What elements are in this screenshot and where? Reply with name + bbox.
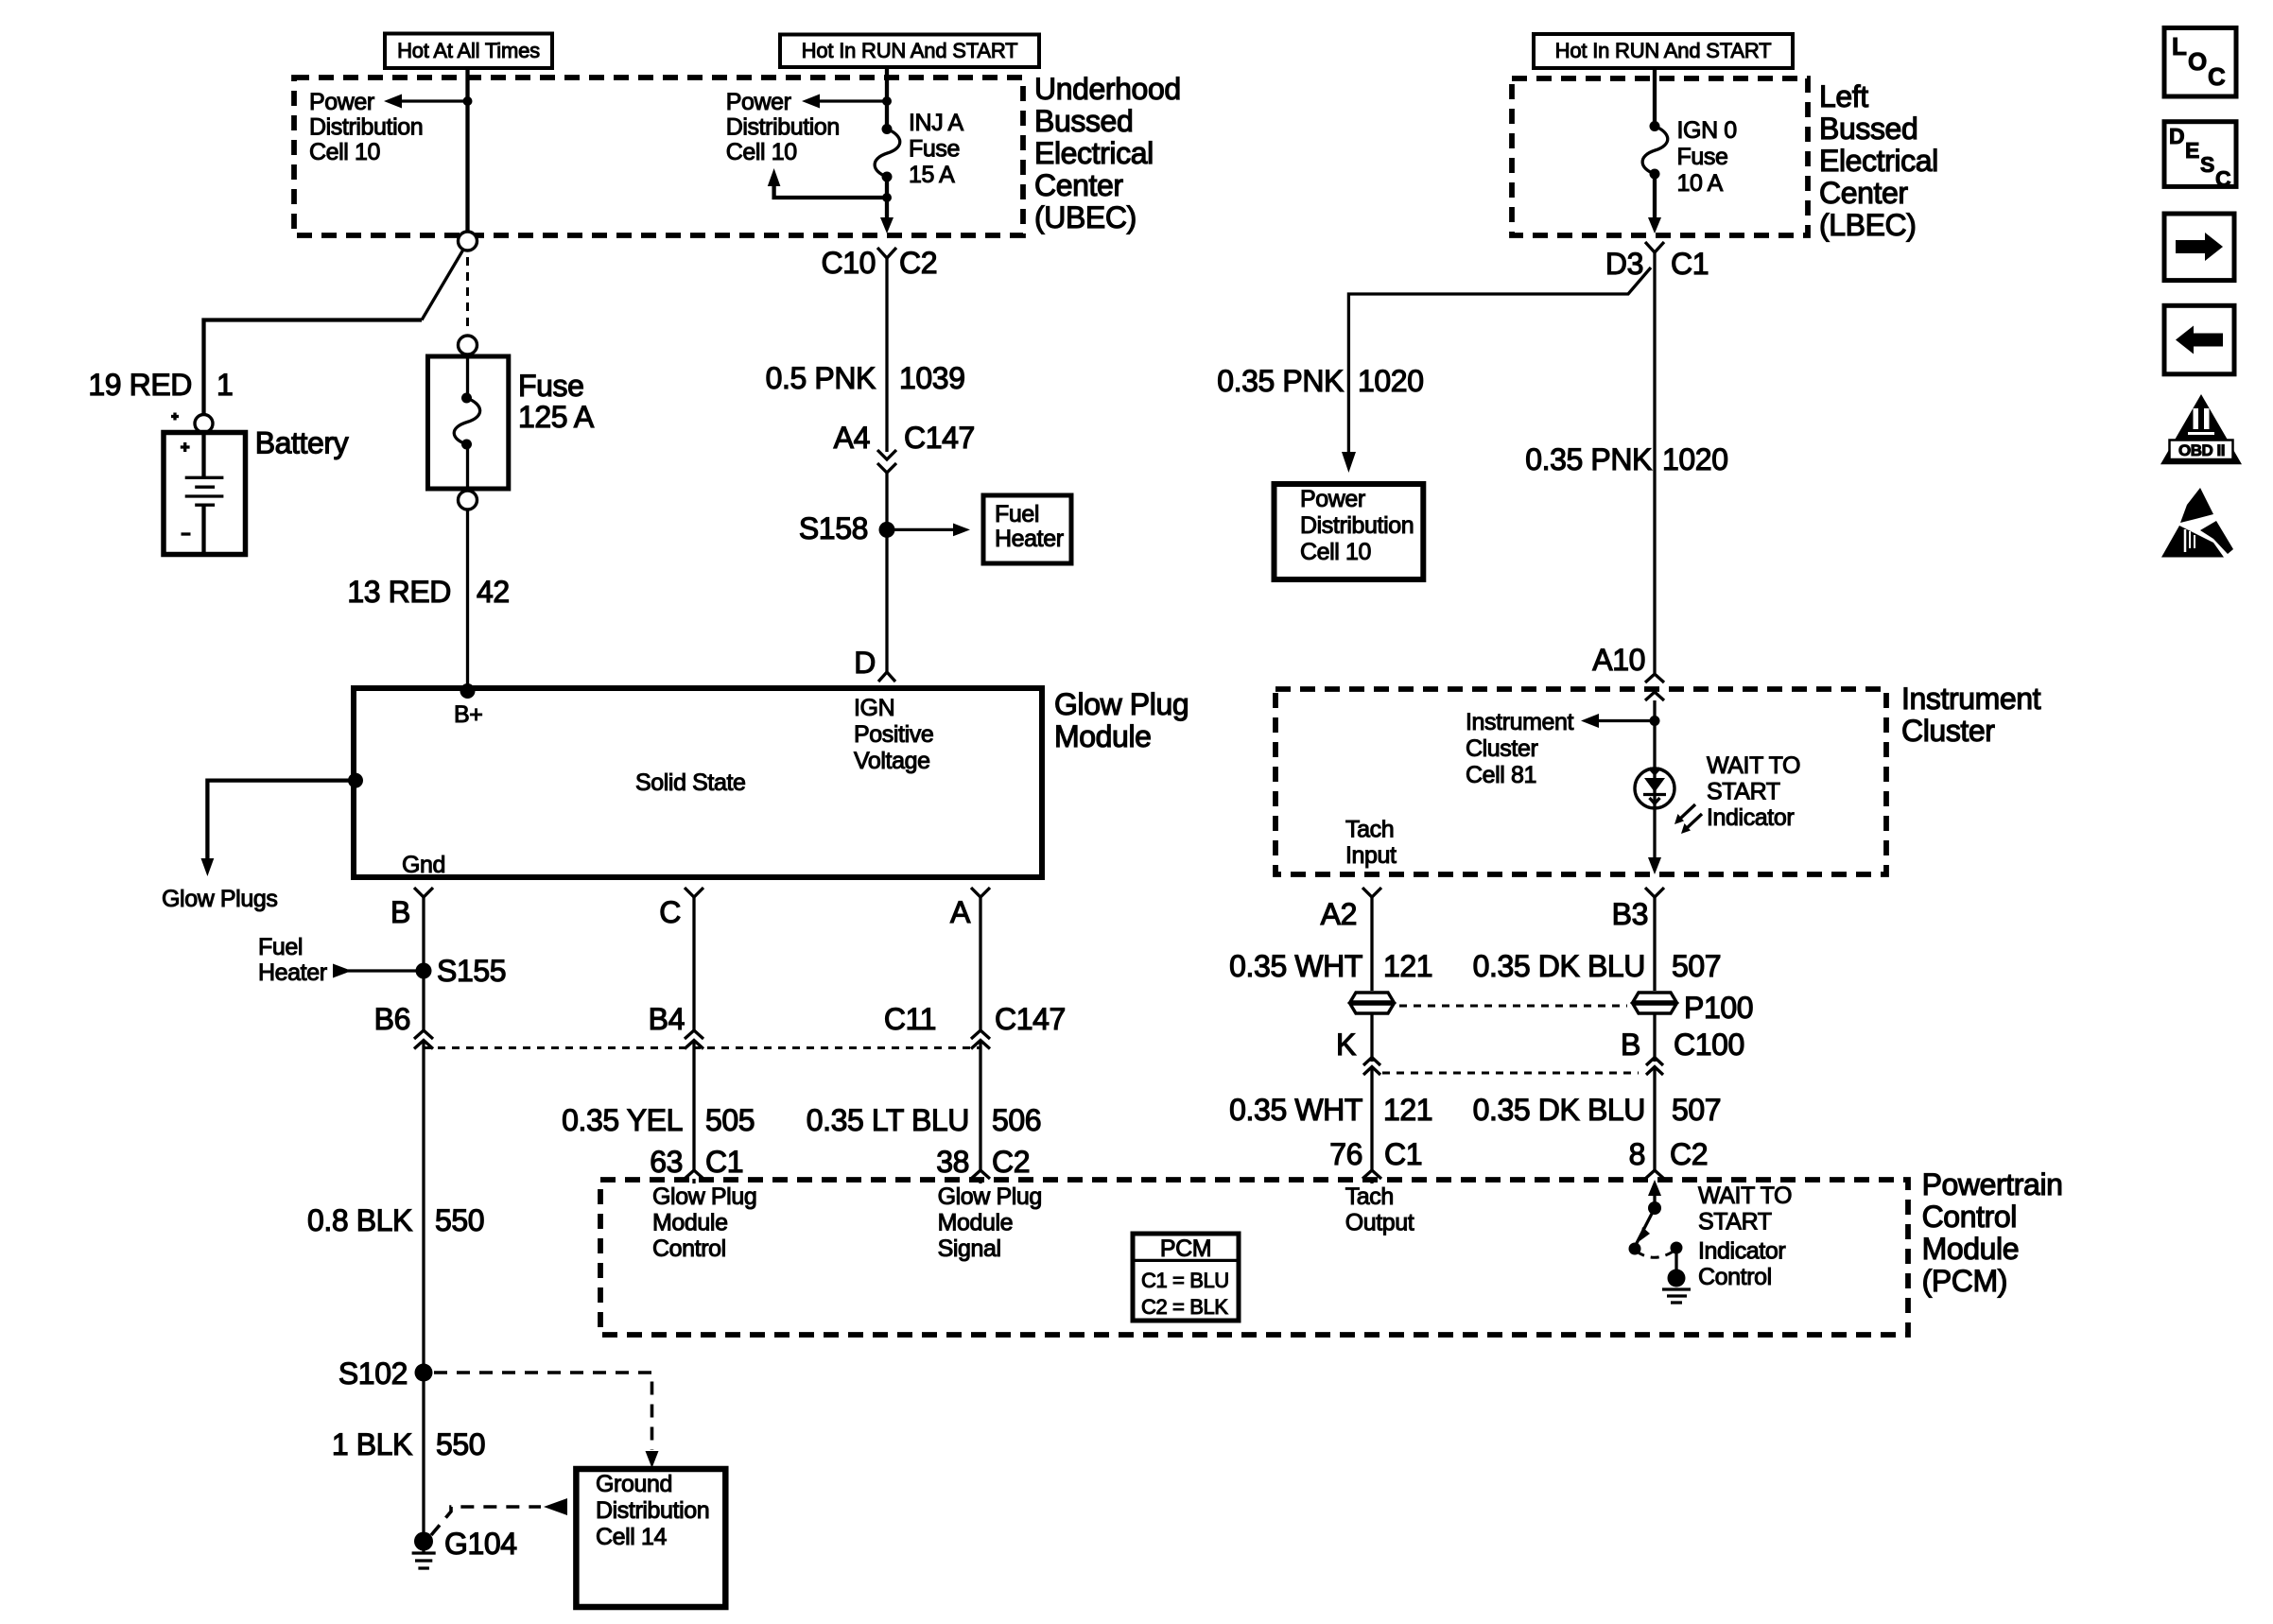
svg-text:A2: A2 xyxy=(1321,897,1357,931)
connector: A10 chevrons into Instrument Cluster xyxy=(1645,674,1664,769)
svg-text:C2: C2 xyxy=(1670,1137,1708,1171)
svg-text:Distribution: Distribution xyxy=(726,114,840,141)
svg-text:Hot At All Times: Hot At All Times xyxy=(397,39,540,62)
svg-text:Cell 10: Cell 10 xyxy=(1300,539,1371,565)
wire: D3 branch diagonal to 0.35 PNK 1020 xyxy=(1348,268,1651,452)
svg-text:1020: 1020 xyxy=(1358,364,1424,398)
svg-text:C1 = BLU: C1 = BLU xyxy=(1141,1269,1229,1292)
wire: dashed connector C147 span xyxy=(424,1046,980,1049)
connector: B6 double chevron (C147) xyxy=(414,1030,433,1369)
icon: forward arrow box xyxy=(2164,214,2234,281)
switch blade diagonal xyxy=(422,250,463,320)
node: switch pivot dot xyxy=(1648,1201,1661,1215)
node: junction dot at cluster feed xyxy=(1650,716,1660,726)
connector: pin 8/C2 chevron into PCM xyxy=(1645,1170,1664,1179)
wire: battery positive feed horizontal xyxy=(204,320,423,416)
svg-text:Cell 14: Cell 14 xyxy=(596,1524,668,1550)
text: wire label 0.35 YEL 505 xyxy=(562,1103,755,1137)
svg-text:C2: C2 xyxy=(992,1145,1030,1179)
component: Fuel Heater box xyxy=(983,495,1071,563)
svg-text:Control: Control xyxy=(652,1235,726,1262)
svg-text:19 RED: 19 RED xyxy=(88,368,192,402)
wire: B to B6 xyxy=(422,971,425,1030)
svg-text:550: 550 xyxy=(435,1203,484,1237)
svg-text:0.35 LT BLU: 0.35 LT BLU xyxy=(807,1103,969,1137)
svg-text:Center: Center xyxy=(1819,176,1908,210)
svg-text:0.35 YEL: 0.35 YEL xyxy=(562,1103,683,1137)
svg-text:Signal: Signal xyxy=(938,1235,1001,1262)
svg-text:10 A: 10 A xyxy=(1677,170,1724,197)
text: Power Distribution Cell 10 (UBEC left) xyxy=(309,89,423,165)
svg-text:507: 507 xyxy=(1672,1093,1721,1127)
wire: dashed reference S102 to Ground Distribution xyxy=(434,1373,659,1468)
svg-text:B3: B3 xyxy=(1612,897,1648,931)
connector: pin 63/C1 chevron into PCM xyxy=(685,1170,703,1183)
svg-text:C2 = BLK: C2 = BLK xyxy=(1141,1295,1228,1319)
text: Glow Plug Module Signal xyxy=(938,1183,1042,1262)
open circle: fuse 125A bottom terminal xyxy=(459,491,477,510)
svg-text:WAIT TO: WAIT TO xyxy=(1698,1183,1792,1209)
svg-text:OBD II: OBD II xyxy=(2178,441,2225,459)
wire: arrow to Power Distribution Cell 10 (UBEC right) xyxy=(802,95,887,109)
svg-text:S: S xyxy=(2200,152,2214,177)
wire: arrow into Power Distribution box xyxy=(1342,452,1356,473)
svg-text:1039: 1039 xyxy=(899,361,965,395)
svg-text:Hot In RUN And START: Hot In RUN And START xyxy=(1555,39,1772,62)
icon: OBD II triangle xyxy=(2160,394,2242,464)
svg-text:INJ A: INJ A xyxy=(909,110,963,136)
switch: open contact circle at UBEC exit xyxy=(459,232,477,251)
svg-text:Power: Power xyxy=(1300,486,1365,512)
fuse element 125A xyxy=(454,356,479,489)
svg-text:0.35 WHT: 0.35 WHT xyxy=(1229,949,1362,983)
switch dashed travel line xyxy=(466,257,469,333)
connector: A4/C147 inline chevrons xyxy=(877,450,896,672)
svg-text:8: 8 xyxy=(1629,1137,1645,1171)
text: Glow Plug Module (side label) xyxy=(1054,687,1189,753)
pin C: Y terminal below module xyxy=(685,888,703,1030)
text: 63 | C1 xyxy=(650,1145,743,1179)
svg-text:A4: A4 xyxy=(834,421,870,455)
wire: contact to ground xyxy=(1674,1248,1677,1270)
connector: C10/C2 Y terminal xyxy=(877,248,896,452)
svg-text:C147: C147 xyxy=(904,421,975,455)
wire: arrow to Power Distribution Cell 10 (left) xyxy=(384,95,468,109)
text: 8 | C2 xyxy=(1629,1137,1709,1171)
ground G104 xyxy=(412,1532,436,1569)
svg-text:Ground: Ground xyxy=(596,1471,672,1497)
text: Fuse 125 A xyxy=(518,369,595,434)
svg-text:Left: Left xyxy=(1819,79,1868,113)
ground: indicator control ground xyxy=(1662,1270,1691,1304)
node: junction dot below fuse xyxy=(882,193,892,202)
text: Tach Output xyxy=(1345,1183,1414,1236)
svg-text:Instrument: Instrument xyxy=(1901,682,2041,716)
wire: below INJ A fuse xyxy=(885,177,889,217)
svg-text:Indicator: Indicator xyxy=(1698,1238,1785,1265)
svg-text:Bussed: Bussed xyxy=(1034,104,1133,138)
svg-text:S102: S102 xyxy=(338,1356,408,1391)
icon: DESC box xyxy=(2164,122,2236,191)
node: splice S102 xyxy=(415,1364,433,1382)
svg-text:Input: Input xyxy=(1345,842,1397,869)
node: switch blade end dot xyxy=(1629,1243,1641,1255)
text: 38 | C2 xyxy=(936,1145,1030,1179)
switch blade with arrowhead xyxy=(1635,1208,1655,1247)
svg-text:Electrical: Electrical xyxy=(1034,136,1154,170)
wire: LED to cluster bottom with arrow xyxy=(1648,808,1661,874)
wire: dashed P100 span xyxy=(1399,1005,1627,1008)
connector: pin 76/C1 chevron into PCM xyxy=(1362,1170,1381,1183)
text: Glow Plug Module Control xyxy=(652,1183,756,1262)
svg-text:Power: Power xyxy=(309,89,374,115)
svg-text:505: 505 xyxy=(705,1103,755,1137)
pin A: Y terminal below module xyxy=(971,888,990,1030)
svg-text:(PCM): (PCM) xyxy=(1922,1264,2007,1298)
svg-text:IGN: IGN xyxy=(854,695,894,721)
svg-text:Fuse: Fuse xyxy=(518,369,584,403)
svg-text:Indicator: Indicator xyxy=(1707,804,1794,831)
svg-text:Distribution: Distribution xyxy=(309,114,423,141)
svg-text:C: C xyxy=(2208,62,2226,91)
text: wire label 1 BLK 550 xyxy=(332,1427,485,1461)
svg-text:Glow Plug: Glow Plug xyxy=(938,1183,1042,1210)
svg-text:Positive: Positive xyxy=(854,721,933,748)
svg-text:0.35 PNK: 0.35 PNK xyxy=(1525,442,1652,476)
svg-text:Solid State: Solid State xyxy=(635,769,746,796)
svg-text:Tach: Tach xyxy=(1345,817,1394,843)
svg-text:Fuse: Fuse xyxy=(1677,144,1728,170)
text: INJ A Fuse 15 A xyxy=(909,110,963,188)
wire: arrow down at UBEC exit (C2) xyxy=(880,217,894,233)
text: Instrument Cluster (side label) xyxy=(1901,682,2041,748)
svg-text:Voltage: Voltage xyxy=(854,748,930,774)
text: WAIT TO START Indicator (cluster) xyxy=(1707,752,1800,831)
open circle: fuse 125A top terminal xyxy=(459,336,477,354)
node: junction dot battery feed in UBEC xyxy=(463,96,473,106)
module LBEC dashed box xyxy=(1512,78,1808,235)
node: splice S158 xyxy=(879,522,895,538)
wire: branch with up arrow to Power Distribution xyxy=(768,168,887,198)
text: IGN 0 Fuse 10 A xyxy=(1677,117,1737,197)
svg-text:Distribution: Distribution xyxy=(1300,512,1414,539)
svg-text:Battery: Battery xyxy=(255,426,349,460)
svg-text:(LBEC): (LBEC) xyxy=(1819,208,1917,242)
svg-text:13 RED: 13 RED xyxy=(347,575,451,609)
svg-text:1020: 1020 xyxy=(1662,442,1728,476)
svg-text:START: START xyxy=(1707,779,1780,805)
wire: 1 BLK 550 down to G104 xyxy=(422,1373,425,1537)
svg-text:Powertrain: Powertrain xyxy=(1922,1167,2063,1201)
svg-text:0.35 WHT: 0.35 WHT xyxy=(1229,1093,1362,1127)
connector: C11/C147 double chevron xyxy=(971,1030,990,1170)
svg-text:506: 506 xyxy=(992,1103,1041,1137)
pin D: Y terminal into Glow Plug Module xyxy=(878,672,895,682)
svg-text:Output: Output xyxy=(1345,1210,1414,1236)
text: Tach Input xyxy=(1345,817,1397,870)
svg-text:38: 38 xyxy=(936,1145,969,1179)
svg-text:B: B xyxy=(390,895,410,929)
component: Ground Distribution Cell 14 box xyxy=(576,1469,725,1607)
svg-text:121: 121 xyxy=(1383,1093,1432,1127)
component: PCM legend box xyxy=(1133,1234,1239,1321)
svg-text:Control: Control xyxy=(1698,1264,1772,1290)
svg-text:Electrical: Electrical xyxy=(1819,144,1938,178)
svg-text:PCM: PCM xyxy=(1160,1235,1211,1262)
connector: pin 38/C2 chevron into PCM xyxy=(971,1170,990,1183)
svg-text:125 A: 125 A xyxy=(518,400,595,434)
svg-text:S155: S155 xyxy=(437,954,506,988)
text: Underhood Bussed Electrical Center (UBEC) xyxy=(1034,72,1181,234)
svg-text:Bussed: Bussed xyxy=(1819,112,1917,146)
svg-text:Glow Plug: Glow Plug xyxy=(652,1183,756,1210)
svg-text:C1: C1 xyxy=(705,1145,743,1179)
text: Powertrain Control Module (PCM) side label xyxy=(1922,1167,2063,1298)
svg-text:Hot In RUN And START: Hot In RUN And START xyxy=(802,39,1018,62)
node: junction dot INJ A feed xyxy=(882,96,892,106)
switch: WAIT TO START indicator control arrow up xyxy=(1648,1180,1661,1208)
wire: arrow to Instrument Cluster Cell 81 xyxy=(1581,714,1655,728)
connector: C100 double chevron (right) xyxy=(1646,1058,1663,1171)
text: Left Bussed Electrical Center (LBEC) xyxy=(1819,79,1938,242)
text: wire label 0.35 LT BLU 506 xyxy=(807,1103,1042,1137)
svg-text:Module: Module xyxy=(1054,719,1152,753)
svg-text:B: B xyxy=(1621,1028,1640,1062)
svg-text:Glow Plug: Glow Plug xyxy=(1054,687,1189,721)
svg-text:K: K xyxy=(1336,1028,1356,1062)
node: B+ junction dot xyxy=(460,683,476,699)
svg-text:C100: C100 xyxy=(1674,1028,1744,1062)
svg-text:Control: Control xyxy=(1922,1200,2017,1234)
svg-text:L: L xyxy=(2172,32,2187,60)
svg-text:Heater: Heater xyxy=(995,526,1064,552)
svg-text:Distribution: Distribution xyxy=(596,1497,709,1524)
svg-text:15 A: 15 A xyxy=(909,162,955,188)
svg-text:0.8 BLK: 0.8 BLK xyxy=(307,1203,412,1237)
text: D3 | C1 xyxy=(1605,247,1709,281)
svg-text:P100: P100 xyxy=(1684,991,1753,1025)
svg-text:S158: S158 xyxy=(799,511,868,545)
pin B: Y terminal below module xyxy=(414,888,433,967)
text: wire label 19 RED 1 xyxy=(88,368,233,402)
connector: P100 pass-through (left half) xyxy=(1350,993,1394,1062)
text: Power Distribution Cell 10 (UBEC right) xyxy=(726,89,840,165)
label box: Hot In RUN And START (UBEC) xyxy=(780,35,1039,68)
svg-text:507: 507 xyxy=(1672,949,1721,983)
svg-text:IGN 0: IGN 0 xyxy=(1677,117,1737,144)
text: Instrument Cluster Cell 81 xyxy=(1466,709,1574,788)
battery positive terminal circle xyxy=(195,415,213,433)
svg-text:A: A xyxy=(950,895,971,929)
svg-text:Module: Module xyxy=(938,1210,1014,1236)
svg-text:C1: C1 xyxy=(1384,1137,1422,1171)
text: A4 | C147 xyxy=(834,421,975,455)
svg-text:550: 550 xyxy=(436,1427,485,1461)
fuse: INJ A Fuse 15 A element xyxy=(875,124,900,182)
svg-text:G104: G104 xyxy=(444,1527,517,1561)
svg-text:Cell 81: Cell 81 xyxy=(1466,762,1536,788)
node: switch contact dot xyxy=(1671,1242,1683,1254)
connector: D3/C1 Y terminal xyxy=(1645,242,1664,673)
svg-text:Fuse: Fuse xyxy=(909,136,960,163)
text: IGN Positive Voltage xyxy=(854,695,933,774)
lamp: WAIT TO START indicator LED xyxy=(1635,769,1674,809)
connector: C100 double chevron (left) xyxy=(1363,1058,1380,1171)
text: 76 | C1 xyxy=(1329,1137,1422,1171)
wire: battery feed from Hot At All Times down through UBEC xyxy=(465,68,469,232)
text: wire label 0.5 PNK 1039 xyxy=(766,361,965,395)
svg-text:O: O xyxy=(2188,47,2207,76)
text: wire label 13 RED 42 xyxy=(347,575,509,609)
svg-text:D: D xyxy=(854,646,876,680)
svg-text:42: 42 xyxy=(477,575,510,609)
fuse F1 125A box xyxy=(428,356,509,489)
svg-text:(UBEC): (UBEC) xyxy=(1034,200,1136,234)
svg-text:Center: Center xyxy=(1034,168,1123,202)
text: B | C100 xyxy=(1621,1028,1744,1062)
fuse: IGN 0 Fuse 10 A element xyxy=(1642,121,1668,180)
svg-text:1: 1 xyxy=(217,368,233,402)
svg-text:B4: B4 xyxy=(649,1002,685,1036)
svg-text:Cell 10: Cell 10 xyxy=(309,139,380,165)
connector: B4 double chevron (C147) xyxy=(685,1030,703,1170)
svg-text:START: START xyxy=(1698,1209,1772,1235)
wire: below IGN 0 fuse with down arrow at LBEC exit xyxy=(1648,174,1661,233)
text: wire label 0.35 WHT 121 (lower) xyxy=(1229,1093,1432,1127)
svg-text:Cell 10: Cell 10 xyxy=(726,139,797,165)
svg-text:Module: Module xyxy=(1922,1232,2020,1266)
battery internal plates xyxy=(181,433,224,555)
pin B3: Y terminal below cluster xyxy=(1645,888,1664,991)
wire: to glow plugs xyxy=(201,781,356,876)
text: wire label 0.35 PNK 1020 (branch) xyxy=(1217,364,1423,398)
svg-text:0.35 PNK: 0.35 PNK xyxy=(1217,364,1344,398)
svg-text:0.35 DK BLU: 0.35 DK BLU xyxy=(1473,949,1645,983)
svg-text:63: 63 xyxy=(650,1145,683,1179)
svg-text:Cluster: Cluster xyxy=(1901,714,1995,748)
wire: INJ A feed from label box into UBEC xyxy=(885,67,889,130)
svg-text:Fuel: Fuel xyxy=(258,934,303,960)
svg-text:Cluster: Cluster xyxy=(1466,735,1537,762)
svg-text:Underhood: Underhood xyxy=(1034,72,1181,106)
text: C10 | C2 xyxy=(821,246,937,280)
svg-text:121: 121 xyxy=(1383,949,1432,983)
battery B1 box xyxy=(164,433,246,555)
pin A2: Y terminal below cluster xyxy=(1362,888,1381,991)
node: ground branch dot on module left edge xyxy=(348,773,363,788)
svg-text:Heater: Heater xyxy=(258,959,327,986)
svg-text:76: 76 xyxy=(1329,1137,1362,1171)
module Instrument Cluster dashed box xyxy=(1275,689,1886,874)
component: Power Distribution Cell 10 box xyxy=(1275,484,1424,579)
label box: Hot At All Times xyxy=(385,34,552,69)
svg-text:Instrument: Instrument xyxy=(1466,709,1574,735)
svg-text:C: C xyxy=(659,895,681,929)
svg-text:A10: A10 xyxy=(1592,643,1645,677)
svg-text:C2: C2 xyxy=(899,246,937,280)
icon: LOC box xyxy=(2164,28,2236,97)
text: WAIT TO START Indicator Control (PCM) xyxy=(1698,1183,1792,1290)
svg-text:0.5 PNK: 0.5 PNK xyxy=(766,361,876,395)
svg-text:B6: B6 xyxy=(374,1002,410,1036)
module UBEC dashed box xyxy=(294,78,1023,235)
wire: dashed reference G104 to Ground Distribution xyxy=(431,1498,567,1535)
text: wire label 0.35 PNK 1020 (main) xyxy=(1525,442,1727,476)
wire: Fuel Heater arrow into S155 xyxy=(333,964,416,978)
svg-text:C147: C147 xyxy=(995,1002,1066,1036)
svg-text:C1: C1 xyxy=(1671,247,1709,281)
text: wire label 0.8 BLK 550 xyxy=(307,1203,484,1237)
connector: P100 pass-through (right half) xyxy=(1633,993,1676,1062)
lamp light arrows xyxy=(1674,804,1702,834)
wire: arrow to Fuel Heater xyxy=(894,524,970,537)
svg-text:C10: C10 xyxy=(821,246,876,280)
battery positive terminal + mark xyxy=(171,413,179,421)
svg-text:C: C xyxy=(2215,166,2231,191)
wire: IGN 0 feed from label box xyxy=(1653,68,1657,127)
text: C11 | C147 xyxy=(884,1002,1066,1036)
text: wire label 0.35 DK BLU 507 (upper) xyxy=(1473,949,1722,983)
switch dashed travel arc xyxy=(1637,1251,1674,1257)
module Glow Plug Module box xyxy=(354,688,1042,877)
text: wire label 0.35 WHT 121 (upper) xyxy=(1229,949,1432,983)
node: splice S155 xyxy=(416,963,432,979)
svg-text:Power: Power xyxy=(726,89,791,115)
svg-text:Fuel: Fuel xyxy=(995,501,1039,527)
text: Fuel Heater (left reference) xyxy=(258,934,327,986)
wire: 13 RED 42 fuse to B+ xyxy=(466,510,469,691)
wire: dashed C100 span xyxy=(1382,1072,1639,1075)
label box: Hot In RUN And START (LBEC) xyxy=(1534,34,1793,68)
svg-text:Gnd: Gnd xyxy=(402,852,445,878)
module PCM dashed box xyxy=(600,1180,1908,1335)
svg-text:0.35 DK BLU: 0.35 DK BLU xyxy=(1473,1093,1645,1127)
svg-text:D3: D3 xyxy=(1605,247,1643,281)
svg-text:WAIT TO: WAIT TO xyxy=(1707,752,1800,779)
svg-text:Module: Module xyxy=(652,1210,728,1236)
text: wire label 0.35 DK BLU 507 (lower) xyxy=(1473,1093,1722,1127)
svg-text:E: E xyxy=(2185,138,2199,163)
icon: ESD warning triangle xyxy=(2161,488,2233,558)
svg-text:D: D xyxy=(2169,124,2185,148)
svg-text:B+: B+ xyxy=(454,701,482,728)
icon: back arrow box xyxy=(2164,305,2234,374)
svg-text:Glow Plugs: Glow Plugs xyxy=(162,886,277,912)
svg-text:Tach: Tach xyxy=(1345,1183,1394,1210)
svg-text:C11: C11 xyxy=(884,1002,936,1036)
svg-text:1 BLK: 1 BLK xyxy=(332,1427,412,1461)
